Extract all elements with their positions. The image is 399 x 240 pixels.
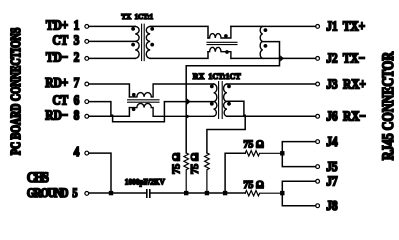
svg-text:RX 1CT:1CT: RX 1CT:1CT: [193, 72, 242, 81]
transformer T2 primary dot upper: [210, 85, 214, 89]
wire rail left of capacitor: [89, 192, 146, 194]
resistor R1 body: [184, 153, 189, 193]
autotransformer L2 dot lower: [264, 44, 268, 48]
autotransformer L2 winding: [260, 26, 263, 58]
svg-text:PC BOARD CONNECTIONS: PC BOARD CONNECTIONS: [7, 27, 23, 155]
terminal J5: [316, 165, 320, 169]
wire CT row B: [89, 40, 135, 42]
junction triangle row E: [187, 98, 191, 104]
svg-text:RD+ 7: RD+ 7: [45, 75, 80, 90]
pin 1 terminal: [85, 25, 89, 29]
choke L3 bottom winding: [129, 103, 213, 116]
wire T2 secondary bottom to J6: [227, 115, 316, 117]
choke L1 top winding: [208, 26, 231, 38]
transformer T1 secondary dot lower: [150, 43, 154, 47]
junction square pin4 rail: [109, 191, 113, 195]
wire TD- row C: [89, 57, 135, 59]
transformer T1 secondary winding: [146, 26, 150, 58]
transformer T2 secondary dot upper: [227, 85, 231, 89]
transformer T2 primary winding: [214, 84, 217, 116]
transformer T1 primary dot lower: [131, 43, 135, 47]
choke L1 bottom dot: [225, 50, 229, 54]
svg-text:RD− 8: RD− 8: [45, 107, 79, 122]
junction square R1 rail: [184, 191, 188, 195]
capacitor C1 plates: [147, 190, 150, 197]
svg-text:J3 RX+: J3 RX+: [326, 76, 366, 91]
terminal J8: [316, 204, 320, 208]
transformer T2 secondary dot lower: [227, 102, 231, 106]
terminal J4: [316, 140, 320, 144]
svg-text:RJ45 CONNECTOR: RJ45 CONNECTOR: [381, 51, 398, 160]
wire to J7: [282, 181, 315, 193]
wire pin 4 to rail: [89, 153, 111, 193]
terminal J3: [316, 82, 320, 86]
wire T1 secondary bottom to choke L1: [150, 52, 208, 59]
svg-text:TD− 2: TD− 2: [46, 50, 79, 65]
wire RD+ row D: [89, 84, 130, 97]
wire T2 secondary center tap: [207, 101, 245, 153]
svg-text:75 Ω: 75 Ω: [172, 153, 183, 175]
pin 7 terminal: [85, 82, 89, 86]
pin 3 terminal: [85, 40, 89, 44]
svg-text:75 Ω: 75 Ω: [243, 139, 263, 151]
resistor R2 body: [205, 153, 210, 193]
svg-text:J7: J7: [326, 174, 338, 189]
svg-text:TD+ 1: TD+ 1: [46, 18, 79, 33]
choke L3 core: [128, 100, 159, 102]
terminal J6: [316, 114, 320, 118]
svg-text:J6 RX−: J6 RX−: [326, 109, 366, 124]
wire rail right of capacitor: [151, 192, 246, 194]
svg-text:75 Ω: 75 Ω: [190, 153, 201, 175]
svg-text:J5: J5: [326, 159, 337, 174]
transformer T1 primary winding: [135, 26, 139, 58]
junction square R3 rail: [223, 191, 227, 195]
choke L3 top dot: [132, 93, 136, 97]
svg-text:TX 1CT:1: TX 1CT:1: [121, 13, 153, 21]
wire choke L1 to J2 row C: [231, 57, 316, 59]
junction square J4/J5: [280, 151, 284, 155]
wire L2 center tap: [186, 42, 279, 153]
wire to J8: [282, 193, 315, 206]
transformer T2 core: [219, 82, 223, 119]
wire hop blob row F: [187, 115, 189, 118]
pin 5 terminal: [85, 192, 89, 196]
svg-text:J8: J8: [326, 198, 337, 213]
junction square R2 rail: [205, 191, 209, 195]
choke L1 bottom winding: [208, 47, 231, 58]
wire T1 secondary top to choke L1: [150, 26, 208, 38]
pin 8 terminal: [85, 114, 89, 118]
svg-text:J4: J4: [326, 134, 338, 149]
svg-text:CHS: CHS: [27, 169, 49, 185]
svg-text:J2 TX−: J2 TX−: [326, 51, 365, 66]
wire to J4: [282, 142, 315, 154]
wire RD- row F: [89, 108, 130, 117]
transformer T1 secondary dot upper: [150, 27, 154, 31]
svg-text:CT 6: CT 6: [52, 93, 79, 108]
wire choke L1 to J1 row A: [231, 25, 316, 27]
resistor R4 body: [245, 191, 282, 196]
transformer T2 secondary winding: [224, 84, 227, 116]
choke L1 top dot: [224, 34, 228, 38]
transformer T1 core: [142, 24, 145, 60]
wire to J5: [282, 153, 315, 167]
pin 2 terminal: [85, 57, 89, 61]
wire T2 secondary top to J3: [227, 83, 316, 85]
terminal J1: [316, 25, 320, 29]
svg-text:CT 3: CT 3: [52, 33, 79, 48]
transformer T1 primary dot upper: [131, 27, 135, 31]
junction triangle row C: [280, 55, 284, 61]
svg-text:J1 TX+: J1 TX+: [326, 19, 365, 34]
wire CT6 bypass: [89, 102, 214, 122]
terminal J7: [316, 179, 320, 183]
terminal J2: [316, 57, 320, 61]
svg-text:4: 4: [74, 144, 80, 159]
choke L1 core: [207, 42, 237, 44]
junction square J7/J8: [280, 191, 284, 195]
choke L3 top winding: [129, 84, 213, 97]
wire TD+ row A: [89, 25, 135, 27]
wire J4/J5 branch: [225, 153, 245, 193]
transformer T2 primary dot lower: [210, 102, 214, 106]
resistor R3 body: [245, 151, 282, 156]
autotransformer L2 dot upper: [264, 28, 268, 32]
svg-text:1000pF/2KV: 1000pF/2KV: [125, 177, 166, 186]
svg-text:GROUND 5: GROUND 5: [27, 187, 78, 200]
pin 6 terminal: [85, 100, 89, 104]
choke L3 bottom dot: [132, 107, 136, 111]
pin 4 terminal: [85, 151, 89, 155]
